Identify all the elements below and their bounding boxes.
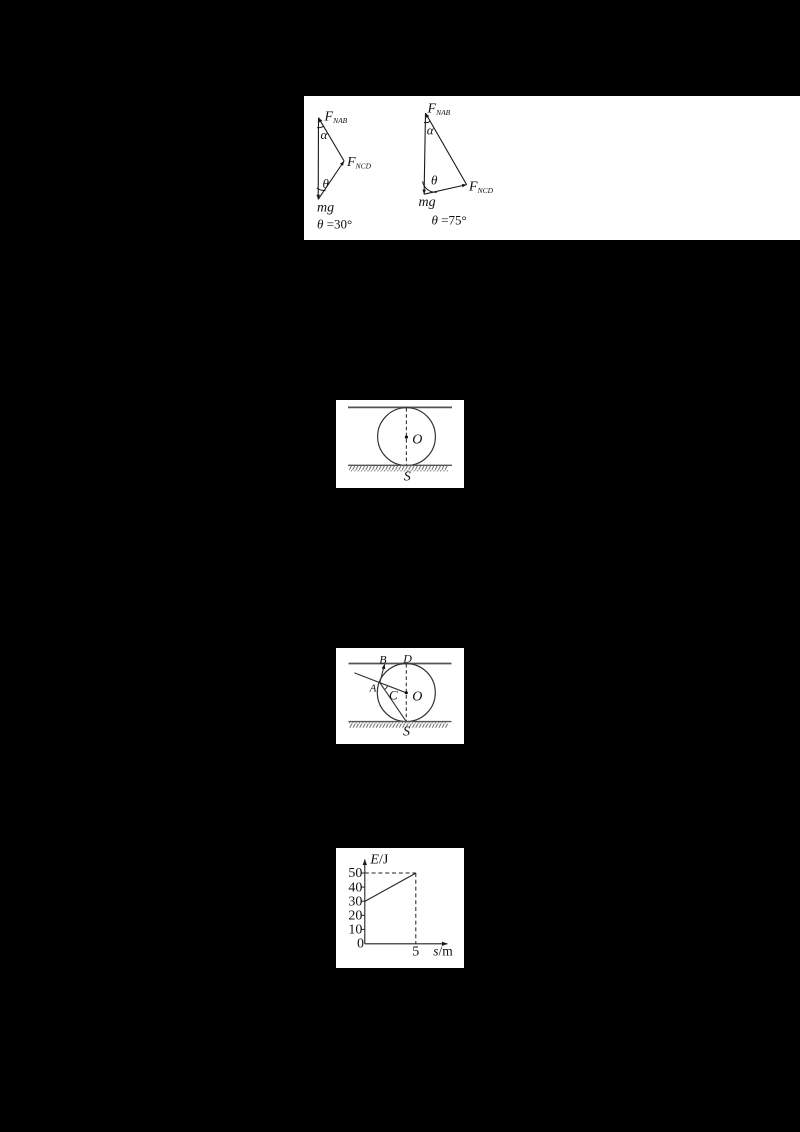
dashed horizontal at 50 <box>365 872 416 874</box>
svg-text:FNAB: FNAB <box>427 102 451 117</box>
triangle 2 angle theta arc <box>423 181 437 192</box>
ball circle <box>378 408 436 466</box>
svg-text:θ =30°: θ =30° <box>317 217 352 232</box>
y axis E <box>364 859 366 943</box>
svg-text:s/m: s/m <box>433 944 453 959</box>
tick 10 <box>362 928 365 930</box>
incident ray through A to O <box>354 673 406 693</box>
center dot O <box>405 691 408 694</box>
triangle 2 left side (mg vector, arrow down) <box>424 113 425 194</box>
svg-text:10: 10 <box>348 923 362 938</box>
reflected arrow A to B <box>380 664 385 682</box>
svg-text:θ =75°: θ =75° <box>432 213 467 228</box>
ceiling line <box>349 663 452 665</box>
ground hatching <box>349 466 448 471</box>
tick 20 <box>362 914 365 916</box>
ball circle <box>377 664 435 722</box>
svg-text:D: D <box>402 652 412 666</box>
svg-text:30: 30 <box>348 894 362 909</box>
triangle 2 angle alpha arc <box>424 121 431 122</box>
angle arc at A <box>385 686 388 690</box>
dashed vertical at s=5 <box>415 873 417 944</box>
x axis s <box>365 943 448 945</box>
panel 2: ball between ceiling and ground <box>336 400 464 488</box>
svg-text:E/J: E/J <box>369 853 388 868</box>
svg-text:S: S <box>403 724 410 739</box>
svg-text:FNCD: FNCD <box>346 155 372 170</box>
triangle 1 angle theta arc <box>317 188 326 191</box>
svg-text:S: S <box>404 470 411 485</box>
svg-text:O: O <box>412 433 422 448</box>
center dot O <box>405 436 408 439</box>
E(s) line <box>365 873 416 901</box>
triangle 2 hypotenuse (F_NAB vector, arrow at apex) <box>426 113 467 185</box>
triangle 1 left side (mg vector, arrow down) <box>317 118 319 200</box>
ground line <box>349 721 452 723</box>
ground line <box>348 464 452 466</box>
svg-text:5: 5 <box>412 944 419 959</box>
svg-text:0: 0 <box>357 936 364 951</box>
svg-text:C: C <box>389 688 398 703</box>
svg-text:θ: θ <box>323 176 330 191</box>
svg-text:40: 40 <box>348 880 362 895</box>
svg-text:mg: mg <box>419 195 436 210</box>
panel 4: E-s graph <box>336 848 464 968</box>
ceiling line <box>348 406 452 408</box>
svg-text:20: 20 <box>348 909 362 924</box>
svg-text:α: α <box>427 123 435 138</box>
svg-text:α: α <box>321 127 329 142</box>
vertical dashed diameter <box>405 408 407 465</box>
triangle 1 hypotenuse (F_NAB vector, arrow at apex) <box>319 118 345 161</box>
ground hatching <box>349 722 448 727</box>
triangle 2 lower side (F_NCD vector, arrow at right) <box>424 185 467 195</box>
svg-text:O: O <box>412 690 422 705</box>
svg-text:50: 50 <box>348 866 362 881</box>
svg-text:FNCD: FNCD <box>468 180 494 195</box>
svg-text:FNAB: FNAB <box>324 110 348 125</box>
svg-text:B: B <box>379 652 387 666</box>
chord A to S <box>380 683 407 722</box>
dashed diameter D-S <box>405 664 407 721</box>
tick 40 <box>362 886 365 888</box>
panel 3: ball with light ray <box>336 648 464 744</box>
svg-text:A: A <box>369 682 377 694</box>
panel 1: force triangles <box>304 96 800 240</box>
svg-text:θ: θ <box>431 173 438 188</box>
svg-text:mg: mg <box>317 201 334 216</box>
triangle 1 lower side (F_NCD vector, arrow at right) <box>318 161 344 199</box>
tick 30 <box>362 900 365 902</box>
tick 50 <box>362 872 365 874</box>
triangle 1 angle alpha arc <box>317 126 324 128</box>
